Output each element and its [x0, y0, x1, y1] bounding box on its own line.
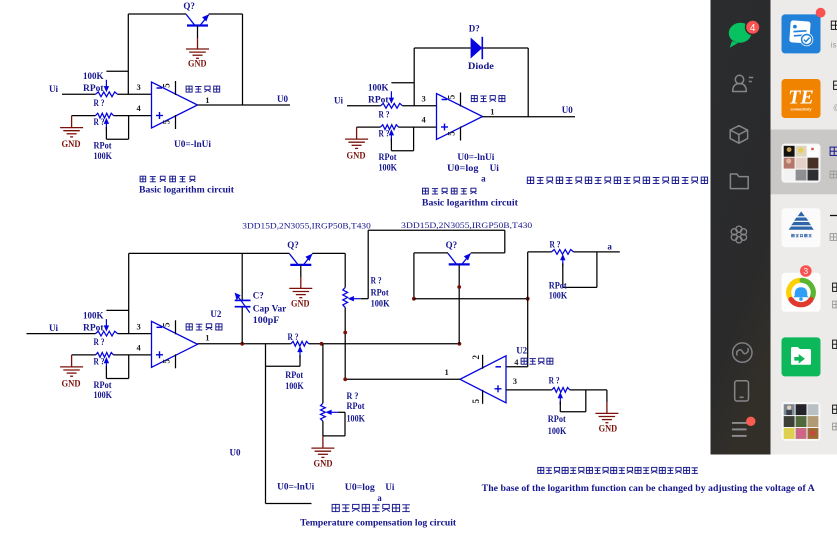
svg-text:100K: 100K: [83, 310, 104, 320]
WeChat chat list background: [771, 0, 837, 455]
circuit 3: pot chain branch to ground vertical: [322, 344, 324, 404]
WeChat chat item 5 title fragment: [833, 283, 837, 291]
WeChat chat item 1 red dot badge: [816, 8, 826, 18]
svg-text:3DD15D,2N3055,IRGP50B,T430: 3DD15D,2N3055,IRGP50B,T430: [401, 220, 532, 230]
svg-text:3: 3: [513, 376, 517, 386]
capacitor C? variable symbol: [235, 293, 251, 313]
circuit 2: feedback wire loop with diode: [414, 47, 470, 49]
svg-text:1: 1: [205, 95, 209, 105]
svg-text:1: 1: [205, 333, 209, 343]
svg-text:RPot: RPot: [83, 83, 104, 93]
WeChat sidebar channels icon (circle): [733, 343, 752, 362]
svg-text:R ?: R ?: [550, 239, 561, 249]
svg-text:100K: 100K: [83, 71, 104, 81]
WeChat chat item 4 avatar (Shanghai Library): [782, 208, 821, 247]
svg-text:RPot: RPot: [83, 322, 104, 332]
svg-text:R ?: R ?: [94, 117, 105, 127]
WeChat sidebar phone icon: [735, 381, 749, 401]
svg-text:R ?: R ?: [379, 109, 390, 119]
circuit 3: U0 branch wire down-left: [265, 344, 267, 504]
circuit 3: plus input wire to pot: [506, 389, 552, 391]
op-amp U2 second power pin 5 (bottom): [471, 390, 483, 404]
capacitor C? branch vertical wire: [241, 253, 243, 300]
ground GND left (circuit 3): [60, 355, 83, 376]
circuit 3: wire GND to lower pot (pin 4 net): [72, 354, 96, 356]
svg-text:R ?: R ?: [549, 375, 560, 385]
WeChat chat item 3 title fragment: [830, 147, 837, 155]
svg-text:a: a: [607, 241, 612, 251]
svg-text:4: 4: [750, 23, 756, 34]
svg-text:3: 3: [803, 266, 808, 276]
WeChat sidebar collections (cube) icon: [730, 126, 747, 144]
WeChat chat item 6 avatar (file transfer green): [782, 337, 821, 376]
svg-text:1: 1: [445, 367, 449, 377]
circuit 1: pot wiper arrow (upper): [104, 80, 109, 93]
svg-text:is: is: [831, 41, 837, 50]
op-amp U? (circuit 1): [152, 82, 198, 128]
svg-text:Basic logarithm circuit: Basic logarithm circuit: [139, 186, 235, 196]
circuit 3: plus-input pot wiper loop wires: [559, 401, 561, 412]
circuit 1: output wire U0: [198, 104, 291, 106]
circuit 2: caption 基本对数电路: [423, 188, 477, 194]
svg-text:5: 5: [162, 119, 172, 124]
circuit 1: op-amp comment 集成运放: [186, 86, 220, 92]
circuit 3: feedback pot branch vertical (left): [344, 253, 346, 287]
svg-text:GND: GND: [314, 458, 333, 468]
WeChat selected chat row highlight: [771, 130, 837, 195]
op-amp U? (circuit 1) power pin 5 (top): [162, 81, 176, 95]
svg-text:R ?: R ?: [94, 357, 105, 367]
circuit 3: minus input branch vertical wire: [527, 252, 529, 367]
WeChat chat item 3 avatar (photo grid): [782, 144, 821, 183]
svg-text:RPot: RPot: [368, 95, 389, 105]
svg-text:Ui: Ui: [385, 482, 394, 492]
WeChat chat item 2 avatar (TE connectivity): [782, 79, 821, 118]
svg-text:GND: GND: [188, 59, 207, 69]
circuit 3: potentiometer RPot lower zigzag: [96, 353, 114, 358]
WeChat chat item 1 title fragment: [831, 21, 837, 29]
op-amp U? (circuit 2) power pin 5 (top): [447, 93, 461, 107]
circuit 3: op-amp comment 集成运放: [186, 324, 222, 330]
svg-text:U0=log: U0=log: [447, 163, 479, 173]
WeChat chat item 5 avatar (Tencent News): [782, 273, 821, 312]
circuit 1: potentiometer RPot upper zigzag: [96, 92, 118, 97]
junction dot at cap branch: [240, 342, 244, 346]
svg-text:100pF: 100pF: [253, 315, 280, 325]
circuit 3: feedback pot zigzag (vertical): [343, 287, 348, 307]
circuit 2: op-amp comment 集成运放: [471, 96, 505, 102]
junction dot output to feedback branch: [343, 377, 347, 381]
svg-text:100K: 100K: [94, 151, 113, 161]
ground GND under Q? (circuit 1): [186, 38, 209, 58]
WeChat chat item 7 avatar (photo grid 2): [782, 402, 821, 441]
svg-text:Diode: Diode: [468, 61, 494, 71]
circuit 2: wire lower pot wiper loop: [390, 139, 392, 151]
WeChat sidebar files (folder) icon: [730, 174, 748, 189]
svg-text:5: 5: [162, 83, 172, 88]
svg-text:100K: 100K: [368, 83, 389, 93]
svg-text:100K: 100K: [379, 162, 398, 172]
WeChat sidebar chat icon (green bubble): [727, 22, 753, 48]
circuit 1: wire Ui input to R? pot (pin 3 net): [62, 93, 96, 95]
junction dot at pot-chain branch: [320, 342, 324, 346]
circuit 3: plus-input pot R? zigzag: [552, 388, 570, 393]
circuit 3: potentiometer RPot upper zigzag: [96, 331, 118, 336]
ground GND under first Q? (circuit 3): [289, 277, 312, 297]
svg-text:R ?: R ?: [288, 332, 299, 342]
op-amp U? (circuit 2): [437, 94, 483, 140]
WeChat chat item 6 title fragment: [833, 340, 837, 348]
svg-text:3DD15D,2N3055,IRGP50B,T430: 3DD15D,2N3055,IRGP50B,T430: [242, 221, 370, 231]
WeChat chat item 7 title fragment: [833, 405, 837, 413]
circuit 3: wire Q? base to ground: [300, 265, 302, 277]
svg-text:RPot: RPot: [379, 152, 397, 162]
svg-text:U2: U2: [516, 346, 527, 356]
svg-text:R ?: R ?: [94, 337, 105, 347]
transistor Q? (circuit 3 first): [290, 254, 313, 265]
circuit 2: potentiometer RPot upper zigzag: [381, 103, 403, 108]
ground GND left (circuit 2): [345, 127, 368, 148]
ground GND right (circuit 3): [595, 402, 618, 423]
circuit 2: output wire U0: [482, 116, 575, 118]
svg-text:100K: 100K: [347, 413, 366, 423]
svg-text:RPot: RPot: [549, 280, 567, 290]
circuit 3: second loop transistor wire: [414, 252, 448, 254]
svg-text:RPot: RPot: [548, 414, 566, 424]
svg-text:Basic logarithm circuit: Basic logarithm circuit: [422, 198, 519, 208]
diode D? symbol: [471, 37, 483, 59]
svg-text:100K: 100K: [94, 390, 113, 400]
svg-text:R ?: R ?: [379, 129, 390, 139]
svg-text:U0=-lnUi: U0=-lnUi: [277, 481, 315, 491]
circuit 1: feedback wire top loop: [128, 13, 186, 15]
svg-text:@: @: [833, 103, 837, 112]
svg-text:Ui: Ui: [334, 95, 343, 105]
circuit 2: pot wiper arrow (lower): [389, 129, 394, 142]
svg-text:100K: 100K: [371, 299, 390, 309]
circuit 1: caption 基本对数电路: [140, 176, 195, 182]
WeChat chat item 4 title fragment: [830, 215, 837, 217]
circuit 3: second loop top wire: [368, 229, 505, 231]
ground GND left (circuit 1): [60, 116, 83, 137]
circuit 3: pot wiper arrow (upper): [104, 319, 109, 332]
svg-text:3: 3: [137, 322, 141, 332]
svg-text:GND: GND: [599, 424, 618, 434]
circuit 1: wire wiper tap to feedback: [106, 70, 128, 72]
svg-text:GND: GND: [62, 378, 81, 388]
svg-text:GND: GND: [291, 299, 310, 309]
circuit 3: top-right pot wire (net a): [528, 251, 552, 253]
svg-text:2: 2: [471, 355, 481, 360]
op-amp U? (circuit 1) power pin 5 (bottom): [162, 115, 176, 129]
svg-text:The base of the logarithm func: The base of the logarithm function can b…: [482, 484, 815, 494]
circuit 3: wire Ui input (pin 3 net): [27, 333, 96, 335]
op-amp U2 (circuit 3 first) power pin 5 (top): [162, 320, 176, 334]
circuit 2: wire wiper tap to feedback: [391, 82, 414, 84]
op-amp U2 second (mirrored): [460, 356, 506, 403]
WeChat chat item 1 avatar (blue docs icon): [782, 14, 821, 53]
svg-text:GND: GND: [62, 139, 81, 149]
junction dot at output wire end: [458, 342, 462, 346]
svg-text:U2: U2: [210, 309, 221, 319]
circuit 3: wire to op-amp minus input: [506, 366, 528, 368]
floating junction dot on feedback branch: [343, 331, 347, 335]
circuit 3: second op-amp output wire: [345, 378, 460, 380]
circuit 2: wire GND to lower pot (pin 4 net): [357, 126, 381, 128]
circuit 1: wire transistor base to ground: [197, 26, 199, 38]
svg-text:3: 3: [137, 82, 141, 92]
circuit 3: wire between loop corner and minus-input branch: [414, 298, 528, 300]
circuit 3: grounded pot wiper loop wires: [338, 411, 345, 413]
svg-text:Cap Var: Cap Var: [253, 303, 286, 313]
svg-text:5: 5: [162, 322, 172, 327]
svg-text:Ui: Ui: [49, 323, 58, 333]
WeChat chat item 4 subtitle fragment: [830, 234, 837, 241]
circuit 2: note 调节电位器可以使对数函数的底数发生改变: [527, 177, 707, 183]
svg-text:U0: U0: [230, 448, 241, 458]
circuit 3: feedback left vertical and top wire: [128, 253, 130, 333]
svg-text:C?: C?: [253, 290, 264, 300]
circuit 2: potentiometer RPot lower zigzag: [381, 125, 399, 130]
circuit 3: op-amp output wire: [198, 343, 291, 345]
WeChat chat item 3 subtitle fragment: [830, 171, 837, 178]
circuit 3: top-right pot wiper loop wires: [562, 263, 564, 287]
circuit 3: grounded pot zigzag (vertical): [321, 403, 326, 421]
svg-text:U0: U0: [562, 105, 573, 115]
svg-text:5: 5: [447, 131, 457, 136]
svg-text:100K: 100K: [285, 381, 304, 391]
circuit 1: pot wiper arrow (lower): [104, 118, 109, 131]
svg-text:5: 5: [447, 94, 457, 99]
svg-text:R ?: R ?: [347, 391, 359, 401]
circuit 3: top-right pot R? zigzag: [552, 250, 574, 255]
svg-text:5: 5: [471, 399, 481, 404]
svg-text:100K: 100K: [549, 290, 568, 300]
svg-text:U0=log: U0=log: [345, 482, 376, 492]
WeChat chat badge 4: [746, 20, 760, 34]
WeChat chat item 5 badge 3: [800, 265, 812, 277]
svg-text:TE: TE: [788, 87, 814, 109]
circuit 1: wire lower pot wiper loop: [105, 127, 107, 139]
svg-text:100K: 100K: [548, 426, 567, 436]
op-amp U2 (circuit 3 first) power pin 5 (bottom): [162, 354, 176, 368]
svg-text:4: 4: [514, 357, 519, 367]
transistor Q? (circuit 3 second): [448, 253, 471, 264]
svg-text:RPot: RPot: [94, 380, 112, 390]
svg-text:Q?: Q?: [446, 240, 458, 250]
circuit 3: wire pot to right GND: [606, 390, 608, 402]
svg-text:RPot: RPot: [347, 401, 365, 411]
op-amp U2 second power pin 2 (top): [471, 355, 483, 369]
op-amp U2 (circuit 3 first): [152, 321, 198, 367]
circuit 3: feedback pot wiper arrow: [348, 296, 361, 301]
svg-text:U0: U0: [277, 94, 288, 104]
circuit 3: plus-input pot wiper arrow: [558, 392, 563, 405]
svg-text:U0=-lnUi: U0=-lnUi: [174, 139, 212, 149]
circuit 3: pot wiper arrow (lower): [104, 357, 109, 370]
circuit 3: output pot R? zigzag (horizontal): [291, 341, 309, 346]
junction dot at minus-input branch: [526, 297, 530, 301]
svg-text:U0=-lnUi: U0=-lnUi: [457, 152, 495, 162]
note 调节a的电压值可以使对数函数的底数发生改变: [538, 467, 698, 473]
svg-text:3: 3: [422, 94, 426, 104]
svg-text:GND: GND: [347, 151, 366, 161]
circuit 1: wire GND to lower pot (pin 4 net): [72, 115, 96, 117]
svg-text:D?: D?: [469, 23, 480, 33]
circuit 3: caption 温度补偿对数电路: [332, 504, 410, 511]
svg-text:RPot: RPot: [371, 287, 389, 297]
WeChat sidebar contacts icon: [733, 75, 754, 91]
circuit 3: grounded pot wiper arrow: [325, 410, 338, 415]
circuit 3: output pot wiper loop wires: [299, 355, 301, 366]
circuit 3: feedback pot wiper tap wire: [360, 298, 368, 300]
WeChat sidebar mini-program (flower) icon: [731, 226, 746, 243]
svg-text:Ui: Ui: [49, 84, 58, 94]
junction dot at second loop corner: [412, 297, 416, 301]
WeChat chat item 2 title fragment: [834, 81, 837, 89]
svg-text:Q?: Q?: [183, 1, 195, 11]
svg-text:a: a: [377, 493, 382, 503]
floating junction dot on Q? base wire: [457, 285, 461, 289]
circuit 3: output pot wiper arrow: [297, 346, 302, 359]
svg-text:5: 5: [162, 359, 172, 364]
WeChat chat item 7 subtitle fragment: [833, 423, 837, 430]
circuit 1: potentiometer RPot lower zigzag: [96, 113, 114, 118]
svg-text:a: a: [481, 173, 486, 183]
svg-text:connectivity: connectivity: [791, 108, 813, 112]
svg-text:Ui: Ui: [490, 163, 500, 173]
circuit 3: top-right pot wiper arrow: [560, 254, 565, 267]
svg-text:R ?: R ?: [94, 98, 105, 108]
op-amp U? (circuit 2) power pin 5 (bottom): [447, 127, 461, 141]
circuit 3: wire lower pot wiper loop: [105, 366, 107, 378]
svg-text:Q?: Q?: [287, 240, 299, 250]
circuit 2: wire Ui input (pin 3 net): [347, 105, 381, 107]
circuit 3: wire Q? base down to output: [458, 265, 460, 344]
svg-text:RPot: RPot: [94, 141, 112, 151]
ground GND below output pot chain (circuit 3): [311, 436, 334, 457]
svg-text:Temperature compensation log c: Temperature compensation log circuit: [300, 518, 457, 528]
svg-text:RPot: RPot: [285, 370, 303, 380]
circuit 2: pot wiper arrow (upper): [389, 91, 394, 104]
svg-text:1: 1: [490, 106, 494, 116]
WeChat sidebar menu icon with red dot: [732, 423, 749, 436]
transistor Q?: [186, 14, 209, 25]
circuit 3: wire pot to GND: [322, 421, 324, 436]
svg-text:R ?: R ?: [371, 275, 382, 285]
WeChat chat item 5 subtitle fragment: [833, 301, 837, 308]
